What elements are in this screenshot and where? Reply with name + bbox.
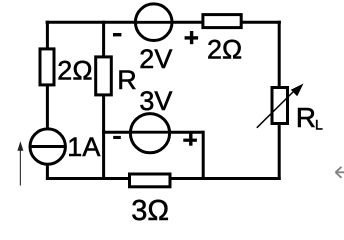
svg-text:3V: 3V <box>139 86 172 116</box>
resistor 2ohm top <box>203 15 241 28</box>
source 3V chord <box>129 131 171 134</box>
resistor R <box>96 57 112 95</box>
1A direction arrow <box>19 149 21 186</box>
wire 3V branch drop vertical <box>202 131 205 179</box>
svg-text:3Ω: 3Ω <box>131 195 169 226</box>
label minus of 2V <box>113 33 121 36</box>
RL variable arrow diagonal <box>257 92 294 128</box>
wire 3V branch horizontal <box>102 131 203 134</box>
resistor 3ohm bottom <box>130 174 171 187</box>
svg-text:2Ω: 2Ω <box>207 35 242 65</box>
label plus of 3V <box>183 139 197 142</box>
cursor arrow gray <box>336 167 344 178</box>
source 2V circle <box>135 4 172 41</box>
resistor RL (variable load) <box>272 88 288 124</box>
source 2V chord <box>134 21 173 24</box>
wire left vertical <box>46 21 49 180</box>
wire middle branch vertical (R branch) <box>102 21 105 180</box>
svg-text:2Ω: 2Ω <box>57 56 92 86</box>
source 1A circle <box>30 129 65 164</box>
wire right vertical <box>278 21 281 180</box>
wire top: from left corner to right corner <box>46 21 281 24</box>
svg-text:2V: 2V <box>139 44 172 74</box>
wire bottom <box>46 177 281 180</box>
label plus of 2V <box>185 36 199 39</box>
svg-text:1A: 1A <box>67 132 100 162</box>
svg-text:R: R <box>117 65 137 95</box>
label minus of 3V <box>113 136 121 139</box>
source 3V circle <box>130 114 169 153</box>
RL arrowhead <box>291 84 304 97</box>
resistor 2ohm left <box>40 49 54 85</box>
source 1A bar <box>30 145 65 148</box>
